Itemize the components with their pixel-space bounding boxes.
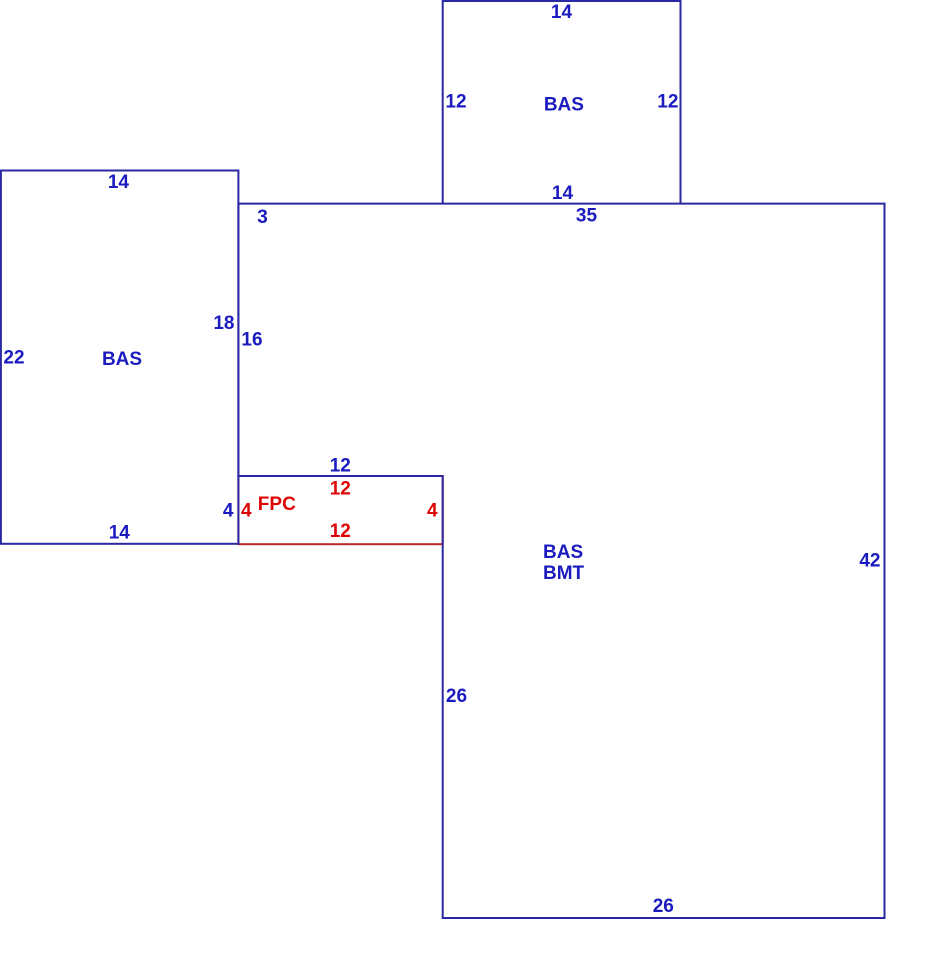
svg-text:42: 42: [859, 550, 880, 571]
area BAS BMT outline (large L-shaped polygon): [238, 204, 884, 918]
svg-text:BMT: BMT: [543, 563, 585, 584]
svg-text:14: 14: [551, 2, 573, 23]
svg-text:4: 4: [223, 501, 234, 522]
svg-text:12: 12: [330, 479, 351, 500]
svg-text:14: 14: [109, 522, 131, 543]
area BAS left outline (left rectangle): [1, 171, 239, 544]
svg-text:35: 35: [576, 206, 598, 227]
svg-text:3: 3: [257, 207, 268, 228]
svg-text:BAS: BAS: [543, 542, 583, 563]
svg-text:14: 14: [108, 172, 130, 193]
svg-text:22: 22: [3, 347, 24, 368]
area FPC outline (red porch rectangle): [238, 476, 442, 544]
svg-text:4: 4: [241, 501, 252, 522]
svg-text:12: 12: [330, 521, 351, 542]
svg-text:4: 4: [427, 501, 438, 522]
svg-text:14: 14: [552, 183, 574, 204]
svg-text:12: 12: [445, 92, 466, 113]
svg-text:18: 18: [213, 313, 234, 334]
svg-text:FPC: FPC: [258, 494, 296, 515]
area BAS upper outline (top rectangle): [443, 1, 681, 204]
svg-text:12: 12: [330, 455, 351, 476]
svg-text:26: 26: [446, 686, 467, 707]
svg-text:BAS: BAS: [102, 349, 142, 370]
svg-text:12: 12: [657, 92, 678, 113]
svg-text:16: 16: [241, 330, 262, 351]
svg-text:BAS: BAS: [544, 94, 584, 115]
svg-text:26: 26: [653, 896, 674, 917]
